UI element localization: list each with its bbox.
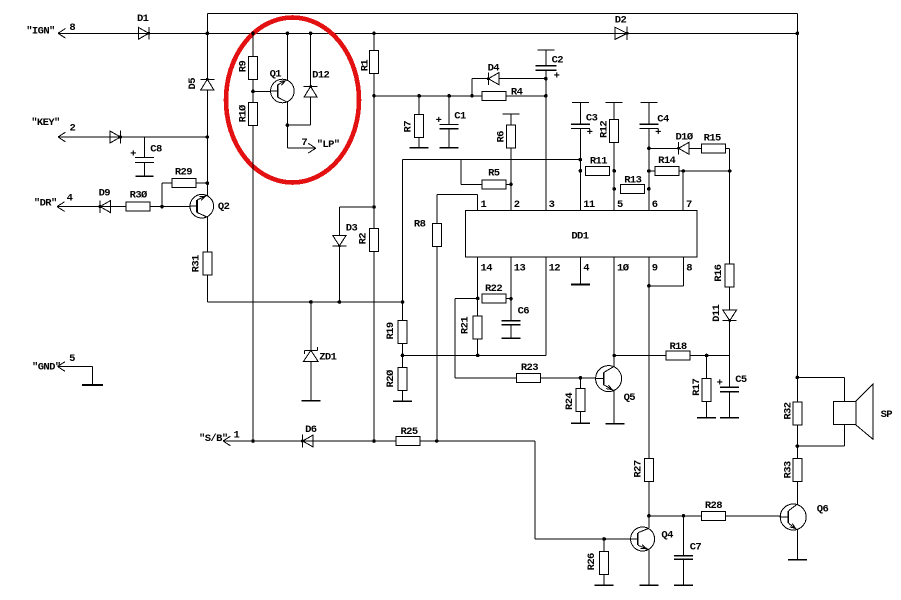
label KEY — [31, 117, 75, 134]
svg-text:R6: R6 — [496, 131, 508, 143]
wire R1/R2 link — [372, 96, 376, 229]
svg-text:R2Ø: R2Ø — [385, 369, 397, 387]
wire R27-Q4 — [647, 481, 651, 528]
junction R9/R10/base — [251, 80, 255, 103]
resistor R13 — [612, 174, 650, 193]
ground C5 — [720, 417, 739, 419]
resistor R6 — [496, 114, 520, 211]
svg-text:R7: R7 — [402, 121, 414, 133]
ground Q4 — [639, 584, 658, 586]
ground R17 — [697, 417, 716, 419]
node IGN rail — [58, 32, 797, 34]
svg-text:"GND": "GND" — [32, 361, 61, 373]
diode D3 — [332, 222, 357, 247]
svg-text:6: 6 — [652, 199, 658, 211]
svg-text:R14: R14 — [658, 155, 675, 167]
speaker SP — [834, 384, 893, 439]
resistor R4 — [482, 86, 548, 100]
resistor R19 — [385, 160, 407, 344]
svg-text:Q2: Q2 — [218, 201, 230, 213]
svg-text:3: 3 — [549, 199, 555, 211]
svg-text:5: 5 — [69, 353, 75, 365]
svg-text:8: 8 — [69, 22, 75, 34]
svg-text:C2: C2 — [552, 54, 564, 66]
annotation red ellipse — [226, 18, 359, 183]
svg-text:C6: C6 — [518, 306, 530, 318]
svg-text:"KEY": "KEY" — [31, 117, 60, 129]
zener ZD1 — [303, 300, 336, 401]
resistor R27 — [633, 286, 654, 482]
svg-text:Q4: Q4 — [661, 529, 673, 541]
wire Q1 emitter — [286, 102, 290, 149]
wire Q4 emitter — [648, 550, 650, 586]
wire top border — [207, 14, 797, 34]
node R4 bus — [374, 95, 546, 97]
diode D4 — [470, 62, 547, 97]
svg-text:D1Ø: D1Ø — [675, 131, 693, 143]
svg-text:R8: R8 — [414, 218, 426, 230]
svg-text:R5: R5 — [488, 167, 500, 179]
node S/B rail — [199, 429, 535, 445]
wire R32-R33 — [796, 425, 800, 459]
svg-text:ZD1: ZD1 — [319, 351, 336, 363]
resistor R23 — [516, 362, 596, 382]
label DR — [34, 193, 73, 210]
svg-text:DD1: DD1 — [571, 231, 588, 243]
resistor R32 — [782, 402, 802, 425]
svg-text:R9: R9 — [237, 61, 249, 73]
ground R20 — [393, 390, 412, 401]
resistor R8 — [414, 218, 441, 246]
wire DR arrow — [57, 202, 65, 212]
resistor R11 — [579, 155, 616, 175]
svg-text:R22: R22 — [485, 283, 502, 295]
svg-text:R27: R27 — [633, 460, 645, 477]
capacitor C1 — [436, 94, 466, 148]
wire pin7 stub — [682, 171, 684, 211]
svg-text:2: 2 — [514, 199, 520, 211]
wire Q1 base — [253, 90, 271, 92]
diode D10 — [675, 131, 693, 154]
svg-text:SP: SP — [881, 409, 893, 421]
svg-text:R25: R25 — [400, 426, 417, 438]
diode D11 — [711, 304, 737, 322]
capacitor C2 — [535, 50, 563, 210]
svg-text:+: + — [717, 378, 723, 390]
svg-text:C8: C8 — [150, 144, 162, 156]
resistor R20 — [385, 367, 407, 390]
svg-text:R13: R13 — [624, 174, 641, 186]
svg-text:C5: C5 — [735, 374, 747, 386]
svg-text:R18: R18 — [669, 341, 686, 353]
transistor Q6 — [780, 503, 828, 530]
wire pins 8-9 join — [647, 257, 683, 288]
svg-text:C4: C4 — [657, 113, 669, 125]
transistor Q2 — [190, 194, 230, 218]
resistor R7 — [402, 94, 423, 138]
svg-text:R4: R4 — [511, 86, 523, 98]
label IGN — [26, 22, 75, 38]
ground R7 — [410, 138, 429, 148]
wire Q5 emitter — [613, 391, 615, 424]
wire SP top — [797, 377, 844, 401]
resistor R9 — [237, 32, 257, 80]
junction C4/D10 — [647, 147, 651, 151]
ground C7 — [674, 584, 693, 586]
node GND — [32, 353, 92, 385]
wire IGN arrow — [58, 29, 66, 39]
svg-text:14: 14 — [481, 262, 493, 274]
junction R19/R20 — [401, 344, 405, 368]
svg-text:"LP": "LP" — [317, 139, 340, 151]
svg-text:R17: R17 — [691, 378, 703, 395]
svg-text:R24: R24 — [564, 393, 576, 410]
wire D3 branch — [339, 207, 374, 235]
svg-text:1Ø: 1Ø — [617, 262, 630, 274]
transistor Q1 — [270, 68, 295, 102]
ground C8 — [135, 175, 153, 177]
resistor R29 — [162, 166, 209, 206]
diode D2 — [615, 14, 629, 40]
svg-text:R32: R32 — [782, 402, 794, 419]
ground ZD1 — [301, 400, 320, 402]
wire SP bottom — [797, 425, 844, 447]
svg-text:R31: R31 — [191, 255, 203, 272]
svg-text:C1: C1 — [454, 110, 466, 122]
node Q4 collector bus — [649, 515, 781, 517]
svg-text:"S/B": "S/B" — [199, 433, 228, 445]
wire pin4 gnd — [579, 257, 581, 285]
op-amp U1 / IC DD1 — [465, 199, 697, 274]
wire R31 to bus — [207, 275, 402, 302]
junction DR/R29 — [160, 205, 164, 209]
wire R33-Q6 — [796, 482, 798, 507]
svg-text:R1Ø: R1Ø — [237, 104, 249, 122]
capacitor C4 — [639, 102, 669, 210]
wire KEY arrow — [58, 132, 66, 142]
junction SP top — [796, 376, 800, 380]
junction IGN/left-vertical — [206, 32, 210, 36]
wire to D10 — [649, 147, 679, 149]
resistor R22 — [482, 283, 513, 303]
diode D12 — [304, 32, 330, 126]
diode D1 — [137, 13, 150, 40]
wire D11 down — [729, 321, 731, 388]
resistor R12 — [599, 102, 623, 210]
wire left vertical — [206, 33, 208, 195]
resistor R5 — [482, 167, 513, 188]
ground pin4 — [571, 284, 590, 286]
svg-text:D2: D2 — [615, 14, 627, 26]
svg-text:D1: D1 — [137, 13, 149, 25]
node LP output — [287, 137, 339, 153]
svg-text:11: 11 — [583, 199, 595, 211]
svg-text:D3: D3 — [346, 222, 358, 234]
svg-text:+: + — [587, 127, 593, 139]
ground C1 — [440, 147, 459, 149]
junction C7 — [682, 514, 686, 518]
svg-text:R19: R19 — [385, 322, 397, 339]
svg-text:R21: R21 — [460, 317, 472, 334]
svg-text:R33: R33 — [782, 461, 794, 478]
ground GND — [82, 384, 103, 386]
resistor R16 — [713, 171, 734, 287]
junction R24 — [579, 376, 583, 380]
svg-text:7: 7 — [301, 137, 307, 149]
wire R23 drop — [455, 298, 517, 377]
svg-text:R11: R11 — [590, 155, 607, 167]
wire S/B arrow — [223, 436, 231, 446]
svg-text:+: + — [130, 149, 136, 161]
svg-text:+: + — [554, 71, 560, 83]
resistor R28 — [701, 500, 725, 520]
svg-text:R23: R23 — [521, 362, 538, 374]
capacitor C5 — [717, 374, 747, 418]
diode D6 — [301, 424, 317, 447]
wire R5 drop — [461, 160, 482, 185]
node pin12 bus — [403, 257, 546, 356]
svg-text:C3: C3 — [586, 112, 598, 124]
resistor R1 — [359, 32, 378, 74]
wire R8 top — [437, 195, 478, 224]
diode D9 — [99, 188, 111, 213]
wire R1 bottom — [372, 74, 376, 98]
wire pin10 down — [612, 257, 616, 367]
resistor R31 — [191, 252, 212, 275]
svg-text:D11: D11 — [711, 304, 723, 321]
svg-text:R29: R29 — [175, 166, 192, 178]
junction C3/R5bus — [579, 158, 583, 162]
wire D10-R15 — [690, 147, 702, 149]
svg-text:7: 7 — [686, 199, 692, 211]
svg-text:13: 13 — [514, 262, 526, 274]
wire R8 down to S/B — [436, 247, 438, 441]
resistor R14 — [655, 155, 685, 176]
svg-text:R15: R15 — [704, 132, 721, 144]
wire S/B drop — [535, 441, 631, 539]
resistor R21 — [460, 299, 483, 358]
wire right border / +V bus — [796, 14, 800, 403]
diode D7 (KEY) — [110, 131, 122, 144]
node R14 bus — [647, 169, 731, 173]
resistor R17 — [691, 356, 711, 418]
svg-text:R16: R16 — [713, 264, 725, 281]
ground R24 — [571, 422, 590, 424]
resistor R10 — [237, 103, 257, 126]
svg-text:2: 2 — [69, 122, 75, 134]
capacitor C3 — [571, 102, 598, 210]
wire Q6 emitter — [796, 529, 798, 560]
svg-text:R28: R28 — [705, 500, 722, 512]
svg-text:4: 4 — [583, 262, 589, 274]
wire R10 down to S/B rail — [251, 126, 255, 443]
wire Q2 collector — [206, 217, 208, 252]
svg-text:4: 4 — [67, 193, 73, 205]
ground C6 — [502, 337, 521, 339]
svg-text:R12: R12 — [599, 121, 611, 138]
svg-text:R3Ø: R3Ø — [130, 189, 148, 201]
wire R15 corner — [725, 148, 729, 171]
svg-text:Q5: Q5 — [624, 392, 636, 404]
diode D5 — [187, 78, 215, 90]
wire pin14 down — [455, 257, 480, 300]
capacitor C8 — [130, 137, 162, 176]
ground Q6 — [788, 559, 807, 561]
svg-text:D5: D5 — [187, 78, 199, 90]
wire D3 down — [338, 246, 342, 304]
svg-text:C7: C7 — [690, 542, 702, 554]
svg-text:"DR": "DR" — [34, 197, 57, 209]
svg-text:D6: D6 — [305, 424, 317, 436]
svg-text:+: + — [655, 127, 661, 139]
wire R16-D11 — [729, 287, 731, 310]
ground Q5 — [605, 423, 624, 425]
node KEY rail — [58, 135, 209, 139]
svg-text:5: 5 — [617, 199, 623, 211]
resistor R18 — [612, 341, 706, 360]
svg-text:Q1: Q1 — [270, 68, 282, 80]
svg-text:"IGN": "IGN" — [26, 25, 55, 37]
svg-text:D12: D12 — [312, 69, 329, 81]
transistor Q4 — [631, 527, 673, 551]
svg-text:8: 8 — [686, 262, 692, 274]
wire to D12 — [287, 124, 310, 126]
resistor R15 — [701, 132, 725, 152]
svg-text:D9: D9 — [99, 188, 111, 200]
junction C5 corner — [705, 354, 730, 358]
svg-text:R26: R26 — [586, 553, 598, 570]
resistor R24 — [564, 378, 585, 424]
svg-text:+: + — [436, 115, 442, 127]
capacitor C7 — [674, 516, 701, 585]
ground R26 — [595, 584, 614, 586]
resistor R33 — [782, 459, 802, 482]
transistor Q5 — [596, 366, 636, 404]
wire Q1 collector — [286, 32, 290, 81]
svg-text:1: 1 — [481, 199, 487, 211]
resistor R30 — [126, 189, 150, 211]
svg-text:D4: D4 — [488, 62, 500, 74]
svg-text:9: 9 — [652, 262, 658, 274]
svg-text:R1: R1 — [359, 60, 371, 72]
svg-text:12: 12 — [549, 262, 561, 274]
node DR rail — [57, 206, 190, 208]
svg-text:1: 1 — [233, 429, 239, 441]
resistor R2 — [357, 229, 378, 252]
wire R2 to S/B rail — [372, 252, 376, 443]
junction R26 — [602, 537, 606, 541]
resistor R25 — [396, 426, 420, 446]
capacitor C6 — [502, 257, 530, 339]
node R5 bus — [403, 159, 581, 161]
resistor R26 — [586, 539, 608, 585]
svg-text:Q6: Q6 — [817, 503, 829, 515]
svg-text:R2: R2 — [357, 233, 369, 245]
junction R8/SB — [435, 439, 439, 443]
